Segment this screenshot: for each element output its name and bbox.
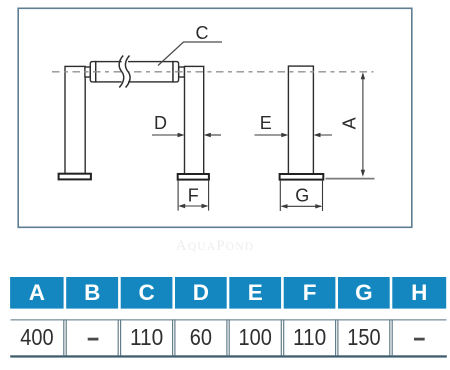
right base plate (178, 174, 209, 180)
table header cell A (10, 277, 64, 309)
break curve 1 (119, 56, 124, 88)
svg-text:AQUAPOND: AQUAPOND (176, 238, 255, 254)
right end cap (173, 62, 179, 82)
body top rule (11, 319, 447, 320)
svg-text:C: C (138, 280, 154, 305)
base reference line (right) (326, 178, 375, 180)
svg-text:150: 150 (347, 324, 380, 350)
left end cap (90, 62, 95, 82)
svg-text:H: H (411, 280, 427, 305)
svg-text:A: A (29, 280, 45, 305)
left base plate (59, 174, 91, 180)
left post (65, 66, 85, 173)
side view base plate (280, 174, 324, 180)
break gap (white) (122, 56, 129, 87)
table header cell F (284, 277, 336, 309)
right stub (179, 67, 185, 77)
table header cell E (229, 277, 281, 309)
svg-text:110: 110 (293, 324, 326, 350)
dimension E left arrow (255, 134, 288, 136)
body values (20, 324, 380, 350)
dash value B (88, 338, 99, 341)
right post (185, 66, 204, 174)
table header cell H (392, 277, 446, 309)
table header cell B (66, 277, 118, 309)
diagram frame box (18, 8, 412, 227)
side view post (288, 66, 313, 174)
header letters (29, 280, 428, 305)
dimension F arrow (180, 205, 208, 207)
svg-text:100: 100 (239, 324, 272, 350)
svg-text:G: G (355, 280, 373, 305)
svg-text:A: A (340, 117, 360, 129)
bar C (tube) (96, 62, 174, 82)
dimension A arrow (vertical) (362, 74, 364, 175)
table header cell D (175, 277, 227, 309)
svg-text:D: D (154, 113, 167, 133)
svg-text:60: 60 (190, 324, 212, 350)
svg-text:C: C (196, 23, 209, 43)
svg-text:110: 110 (130, 324, 163, 350)
svg-text:E: E (248, 280, 263, 305)
left stub (85, 67, 90, 77)
dash value H (414, 338, 425, 341)
dimension D right arrow (205, 134, 221, 136)
dimension E right arrow (315, 134, 332, 136)
body bottom rule (10, 355, 447, 357)
centerline (dash-dot axis) (52, 71, 374, 73)
svg-text:E: E (260, 113, 272, 133)
svg-text:B: B (84, 280, 100, 305)
dimension F extension lines (177, 180, 179, 211)
label C leader line (158, 42, 222, 66)
body cell separators (double lines) (64, 320, 392, 356)
dimension D left arrow (152, 134, 183, 136)
svg-text:F: F (188, 185, 199, 205)
svg-text:400: 400 (20, 324, 53, 350)
svg-text:D: D (193, 280, 209, 305)
dimension G arrow (282, 205, 321, 207)
table header cell C (121, 277, 173, 309)
svg-text:F: F (303, 280, 317, 305)
svg-text:G: G (295, 186, 309, 206)
break curve 2 (125, 56, 130, 88)
table header cell G (338, 277, 390, 309)
dimension G extension lines (279, 180, 281, 211)
